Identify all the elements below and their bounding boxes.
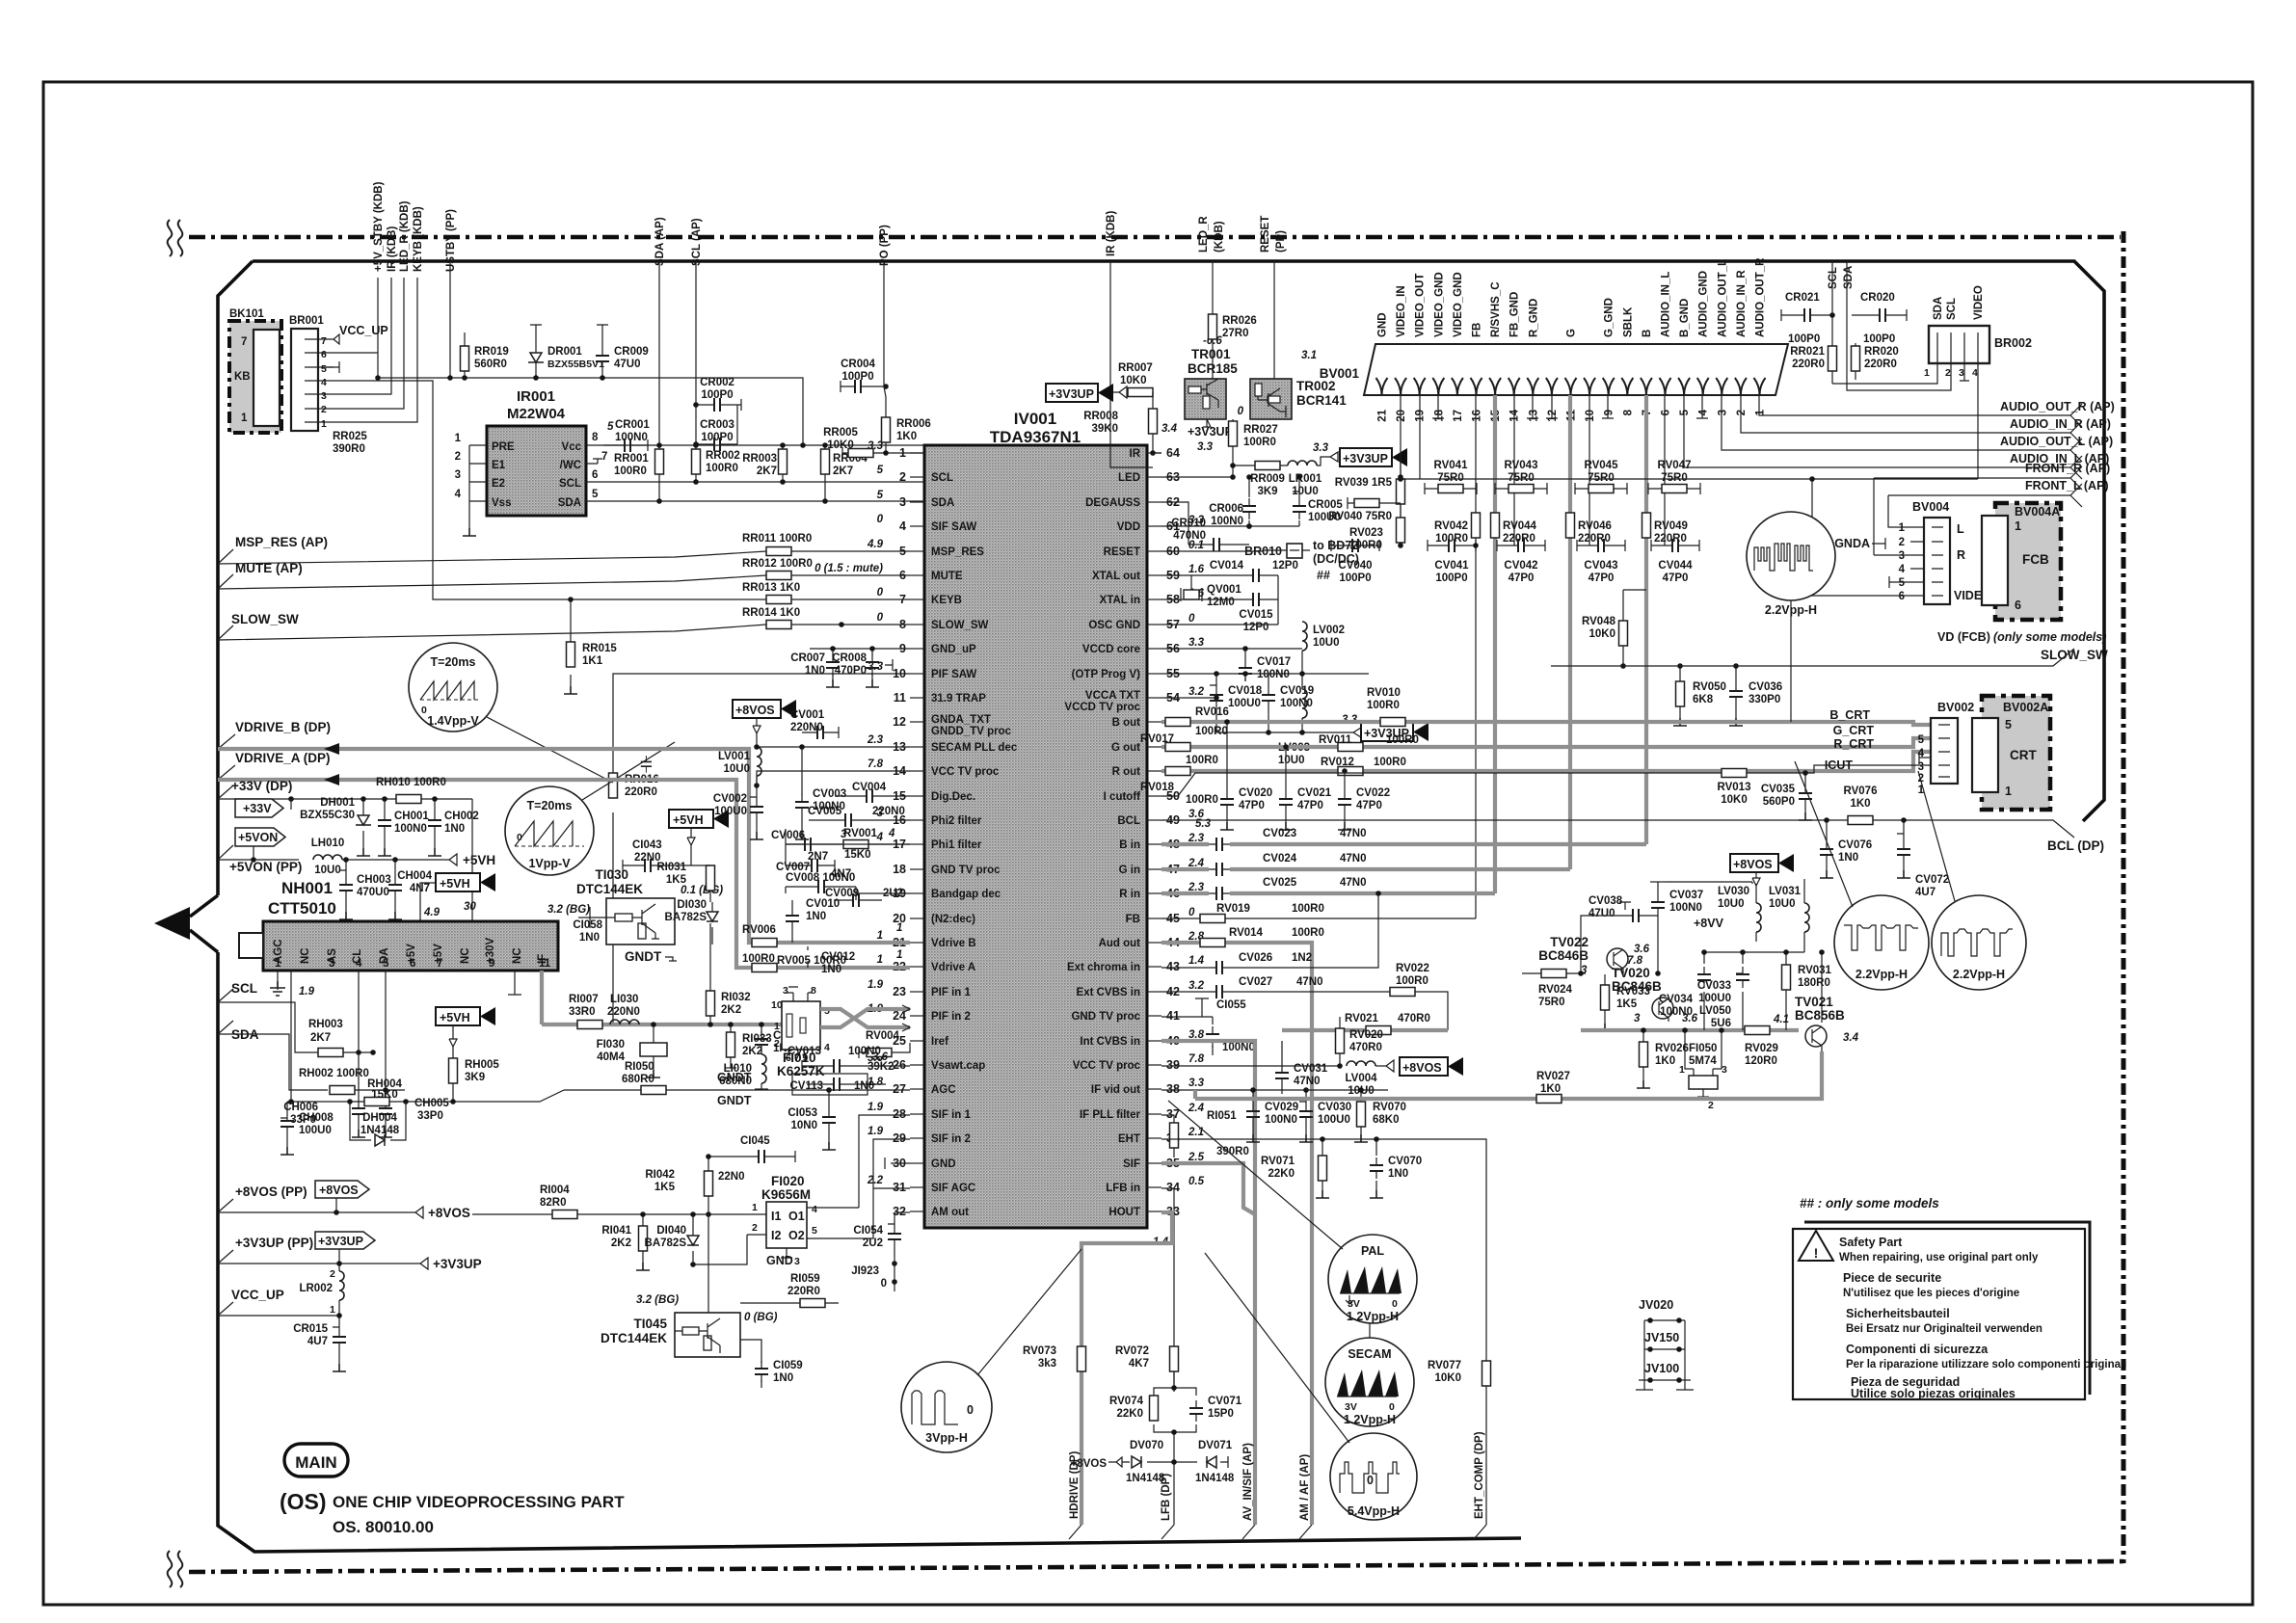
R in thick line with cap CV025 (1161, 891, 1495, 895)
capacitor CV033 100U0 / LV050 5U6 (1697, 952, 1749, 1030)
svg-text:330P0: 330P0 (1749, 694, 1780, 705)
svg-text:Utilice solo piezas originales: Utilice solo piezas originales (1851, 1387, 2016, 1400)
svg-text:CI055: CI055 (1216, 999, 1246, 1011)
svg-text:1N4148: 1N4148 (1195, 1473, 1235, 1484)
svg-text:DR001: DR001 (547, 346, 582, 358)
svg-text:47U0: 47U0 (1589, 908, 1615, 919)
svg-text:G: G (1566, 329, 1578, 337)
svg-text:M22W04: M22W04 (507, 406, 566, 422)
filter FI020 K9656M (747, 1174, 817, 1267)
svg-text:SDA: SDA (558, 497, 581, 509)
svg-text:VIDEO_GND: VIDEO_GND (1453, 272, 1464, 337)
svg-text:33R0: 33R0 (569, 1006, 596, 1018)
svg-text:3K9: 3K9 (465, 1072, 485, 1083)
svg-text:DV070: DV070 (1130, 1440, 1163, 1451)
svg-text:390R0: 390R0 (333, 443, 365, 455)
svg-text:33P0: 33P0 (417, 1110, 443, 1122)
svg-text:B: B (1642, 330, 1653, 337)
svg-text:RI042: RI042 (645, 1169, 675, 1181)
svg-text:RV047: RV047 (1658, 460, 1692, 471)
svg-text:100P0: 100P0 (841, 371, 873, 383)
svg-text:KEYB (KDB): KEYB (KDB) (413, 206, 424, 272)
net FRONT_R (AP) (1874, 462, 2110, 555)
svg-text:CR004: CR004 (841, 359, 875, 370)
wire pin64 IR to column (1110, 453, 1161, 467)
svg-text:100R0: 100R0 (1195, 726, 1228, 737)
capacitor CR003 100P0 (693, 405, 737, 451)
resistor RV046 220R0 (vertical) (1566, 513, 1575, 538)
wire BV004 pin6 VIDEO from column (1812, 479, 1910, 596)
svg-text:47U0: 47U0 (614, 359, 641, 370)
svg-text:+5VH: +5VH (673, 813, 704, 827)
svg-text:+8VOS: +8VOS (1733, 858, 1773, 871)
svg-text:VCCA TXT: VCCA TXT (1085, 690, 1140, 702)
sheet-break squiggle top-left (168, 220, 183, 256)
IC IR001 M22W04 eeprom (455, 388, 608, 516)
capacitor CV038 47U0 (electrolytic) (1589, 895, 1658, 922)
svg-text:FB: FB (1126, 914, 1140, 925)
svg-text:PIF in 2: PIF in 2 (931, 1011, 971, 1023)
capacitor CR008 470P0 (832, 646, 893, 687)
svg-text:1N0: 1N0 (773, 1372, 793, 1384)
svg-text:GND TV proc: GND TV proc (931, 865, 1001, 876)
svg-text:1: 1 (275, 958, 281, 970)
svg-text:3Vpp-H: 3Vpp-H (925, 1431, 968, 1445)
svg-text:TDA9367N1: TDA9367N1 (990, 428, 1081, 446)
BV001 pin 6 fork (1660, 378, 1671, 395)
svg-text:2K7: 2K7 (833, 466, 853, 477)
connector BV001 (trapezoid 21-pin) (1320, 344, 1788, 395)
svg-text:RR007: RR007 (1118, 362, 1153, 374)
wire pin54 VCCA (1161, 697, 1216, 699)
wire pin17 Phi1 (786, 829, 910, 865)
svg-text:CI043: CI043 (632, 839, 662, 851)
svg-text:+3V3UP: +3V3UP (433, 1257, 482, 1271)
svg-text:1.2Vpp-H: 1.2Vpp-H (1344, 1413, 1396, 1426)
capacitor CV022 47P0 (vertical) (1338, 768, 1390, 830)
svg-text:2.2: 2.2 (867, 1175, 884, 1186)
resistor RR011 100R0 (742, 533, 812, 556)
svg-text:CR021: CR021 (1785, 292, 1820, 304)
zener DH001 BZX55C30 (300, 796, 371, 856)
svg-text:82R0: 82R0 (540, 1197, 567, 1209)
resistor RV077 10K0 (vertical) (1428, 1360, 1490, 1386)
power flag +5VON (235, 828, 285, 846)
BV001 pin 12 fork (1546, 378, 1558, 395)
svg-text:9: 9 (489, 958, 494, 970)
svg-text:10K0: 10K0 (1721, 794, 1748, 806)
svg-text:23: 23 (893, 985, 906, 998)
svg-text:TV022: TV022 (1550, 935, 1589, 949)
svg-text:BC856B: BC856B (1795, 1008, 1845, 1023)
svg-text:XTAL in: XTAL in (1100, 595, 1140, 606)
svg-text:BV002A: BV002A (2003, 701, 2048, 714)
resistor RV006 100R0 on Vdrive B (742, 924, 777, 965)
NH001 IF pin 11 wire down (540, 971, 544, 1024)
svg-text:470N0: 470N0 (1173, 530, 1206, 542)
svg-text:1.4: 1.4 (1188, 955, 1205, 967)
svg-text:5: 5 (592, 489, 599, 500)
svg-text:2: 2 (455, 451, 461, 463)
BV001 pin 5 fork (1678, 378, 1690, 395)
svg-text:Vdrive B: Vdrive B (931, 938, 976, 949)
svg-text:RR026: RR026 (1222, 315, 1257, 327)
svg-text:I2: I2 (771, 1229, 781, 1242)
wire exit chamfers on left boundary (218, 549, 235, 1316)
svg-text:JV150: JV150 (1644, 1331, 1679, 1344)
BV001 pin 18 fork (1432, 378, 1444, 395)
svg-text:8: 8 (811, 985, 816, 997)
svg-text:CR008: CR008 (832, 652, 867, 664)
svg-text:4K7: 4K7 (1129, 1358, 1149, 1370)
jumper JV020 (1639, 1298, 1685, 1380)
svg-text:MUTE: MUTE (931, 571, 963, 582)
svg-text:3k3: 3k3 (1038, 1358, 1056, 1370)
svg-text:CR007: CR007 (790, 652, 825, 664)
column FB (pin16) (1475, 395, 1477, 918)
svg-text:RR019: RR019 (474, 346, 509, 358)
wire BV004 pin3 from FRONT loop (1874, 554, 1910, 556)
svg-text:220R0: 220R0 (788, 1286, 820, 1297)
svg-text:7.8: 7.8 (868, 758, 884, 770)
svg-text:Int CVBS in: Int CVBS in (1080, 1036, 1140, 1048)
svg-text:RR020: RR020 (1864, 346, 1899, 358)
svg-text:TV020: TV020 (1612, 966, 1650, 980)
svg-text:VCC_UP: VCC_UP (339, 324, 388, 337)
svg-text:2.2Vpp-H: 2.2Vpp-H (1855, 968, 1908, 981)
svg-text:HOUT: HOUT (1108, 1207, 1140, 1218)
wire pin26 Vsawt (909, 1065, 911, 1067)
resistor RV029 120R0 on drive rail (1745, 1014, 1789, 1067)
svg-text:29: 29 (893, 1131, 906, 1145)
svg-text:Safety Part: Safety Part (1839, 1236, 1903, 1249)
svg-text:+8VOS: +8VOS (428, 1206, 470, 1220)
svg-text:RI031: RI031 (656, 862, 686, 873)
inductor LI010 680N0 (vertical) (717, 1054, 768, 1107)
svg-text:22N0: 22N0 (718, 1171, 745, 1183)
svg-text:12: 12 (1547, 410, 1559, 422)
svg-text:12: 12 (893, 715, 906, 729)
resistor RR019 560R0 (vertical) (461, 333, 509, 381)
svg-text:KB: KB (234, 371, 251, 383)
wire KEYB from BR001 pin1 column (433, 424, 910, 599)
BV001 pin 1 fork (1754, 378, 1766, 395)
svg-text:I cutoff: I cutoff (1104, 791, 1140, 803)
svg-text:RI004: RI004 (540, 1184, 570, 1196)
svg-text:FI020: FI020 (771, 1174, 805, 1188)
svg-text:1N0: 1N0 (806, 911, 826, 922)
resistor RV044 220R0 (vertical) (1491, 513, 1500, 538)
svg-text:RV045: RV045 (1585, 460, 1619, 471)
svg-text:100N0: 100N0 (1257, 669, 1290, 680)
svg-text:0: 0 (877, 514, 884, 525)
svg-text:BR001: BR001 (289, 315, 324, 327)
svg-text:2: 2 (321, 404, 327, 415)
svg-text:ONE CHIP VIDEOPROCESSING PART: ONE CHIP VIDEOPROCESSING PART (333, 1493, 625, 1511)
svg-text:G_CRT: G_CRT (1833, 724, 1875, 737)
wire +5V_STBY column joins rail (377, 353, 379, 378)
+5VH net arrow right (443, 853, 495, 867)
svg-text:DV071: DV071 (1198, 1440, 1233, 1451)
svg-text:1: 1 (455, 433, 462, 444)
svg-text:AUDIO_IN_R: AUDIO_IN_R (1736, 270, 1748, 337)
svg-text:1Vpp-V: 1Vpp-V (528, 857, 571, 870)
svg-text:SLOW_SW: SLOW_SW (231, 612, 299, 626)
svg-text:5: 5 (607, 421, 614, 433)
svg-text:12P0: 12P0 (1272, 560, 1298, 572)
svg-text:RR021: RR021 (1790, 346, 1825, 358)
svg-text:CV019: CV019 (1280, 685, 1314, 697)
svg-text:CTT5010: CTT5010 (268, 899, 336, 918)
svg-text:VIDEO_IN: VIDEO_IN (1396, 285, 1407, 337)
video wire from BR002 pin4 down-left (1401, 478, 1978, 480)
svg-text:2: 2 (774, 1038, 780, 1050)
svg-text:6: 6 (410, 958, 415, 970)
svg-text:DI040: DI040 (656, 1225, 686, 1237)
svg-text:470R0: 470R0 (1398, 1013, 1430, 1024)
parallel RV074 22K0 + CV071 15P0 (1109, 1385, 1242, 1462)
G out thick line pin52 to BV002 (1161, 738, 1931, 747)
capacitor CV042 47P0 (1510, 539, 1532, 552)
svg-text:2K7: 2K7 (310, 1032, 331, 1044)
svg-text:6: 6 (2015, 599, 2021, 612)
svg-text:+8VOS (PP): +8VOS (PP) (235, 1184, 307, 1199)
+5V_STBY rail horizontal (378, 378, 803, 445)
SAW filter FI010 K6257K (771, 985, 830, 1078)
capacitor CV072 4U7 (electrolytic vertical) (1897, 817, 1949, 898)
svg-text:AUDIO_OUT_L: AUDIO_OUT_L (1717, 259, 1728, 337)
svg-text:RV019: RV019 (1216, 903, 1250, 915)
svg-text:100U0: 100U0 (1228, 698, 1261, 709)
capacitor CI045 22N0 (708, 1135, 795, 1183)
BV001 pin 7 fork (1641, 378, 1652, 395)
dash-dot sheet frame bottom (189, 1561, 2125, 1572)
wire SIF in 2 from FI020 (805, 1139, 910, 1238)
svg-text:CV012: CV012 (821, 951, 855, 963)
svg-text:3.2 (BG): 3.2 (BG) (547, 904, 590, 916)
resistor RV018 100R0 on R out (1140, 767, 1218, 807)
svg-text:BC846B: BC846B (1612, 979, 1662, 994)
svg-text:1: 1 (321, 418, 327, 430)
svg-text:4: 4 (888, 828, 895, 839)
svg-text:SECAM: SECAM (1348, 1347, 1391, 1361)
svg-text:CR009: CR009 (614, 346, 649, 358)
svg-text:7.8: 7.8 (1627, 955, 1643, 967)
power flag +5VH (left arrow) (436, 873, 495, 891)
svg-text:Vss: Vss (492, 497, 511, 509)
svg-text:75R0: 75R0 (1437, 472, 1464, 484)
svg-text:CV002: CV002 (713, 793, 747, 805)
svg-text:R_CRT: R_CRT (1833, 737, 1874, 751)
svg-text:VDRIVE_A (DP): VDRIVE_A (DP) (235, 751, 331, 765)
svg-text:RR012 100R0: RR012 100R0 (742, 558, 813, 570)
capacitor CV007 4N7 (776, 859, 851, 880)
capacitor CV034 100N0 (vertical) (1659, 952, 1711, 1030)
capacitor CV020 47P0 (vertical) (1220, 719, 1272, 830)
power flag +8VOS upper right (1730, 854, 1794, 886)
svg-text:100N0: 100N0 (1211, 516, 1243, 527)
svg-text:5: 5 (321, 363, 327, 375)
svg-text:CV038: CV038 (1589, 895, 1623, 907)
svg-text:470P0: 470P0 (835, 665, 867, 677)
svg-text:47P0: 47P0 (1663, 572, 1689, 584)
svg-text:1K0: 1K0 (1540, 1083, 1561, 1095)
svg-text:3: 3 (1634, 1013, 1641, 1024)
svg-text:EHT: EHT (1118, 1133, 1140, 1145)
svg-text:0: 0 (517, 832, 522, 843)
power flag +3V3UP lower (1342, 714, 1428, 741)
svg-text:CV008 100N0: CV008 100N0 (786, 872, 855, 884)
svg-text:RV044: RV044 (1503, 520, 1537, 532)
resistor RV073 3k3 (vertical) on HDRIVE (1023, 1345, 1085, 1371)
svg-text:Bandgap dec: Bandgap dec (931, 889, 1001, 900)
svg-text:5: 5 (1679, 409, 1691, 415)
svg-text:4.1: 4.1 (1773, 1014, 1789, 1025)
svg-text:1K1: 1K1 (582, 655, 603, 667)
svg-text:100P0: 100P0 (1863, 333, 1895, 345)
svg-text:18: 18 (1433, 409, 1445, 421)
svg-text:RV043: RV043 (1505, 460, 1538, 471)
svg-text:RV020: RV020 (1349, 1029, 1383, 1041)
svg-text:CV037: CV037 (1669, 890, 1703, 901)
capacitor CH008 100U0 (electrolytic) (280, 1102, 334, 1155)
dash-dot sheet frame top (189, 235, 2121, 240)
capacitor CV015 12P0 (1161, 575, 1278, 633)
capacitor CR021 100P0 (1781, 292, 1832, 345)
wire pin30 GND stub (885, 1157, 910, 1169)
svg-text:MSP_RES (AP): MSP_RES (AP) (235, 535, 328, 549)
inductor LR002 (vertical) (299, 1264, 344, 1316)
svg-text:CV043: CV043 (1584, 560, 1617, 572)
wire NH001 AGC pin1 down long (291, 971, 564, 1102)
resistor RI004 82R0 (472, 1184, 747, 1219)
resistor RI033 2K2 (vertical) (717, 1022, 772, 1084)
wire pin57 OSC GND (1161, 624, 1278, 625)
svg-text:47P0: 47P0 (1589, 572, 1615, 584)
svg-text:IR (KDB): IR (KDB) (387, 226, 398, 272)
svg-text:2: 2 (330, 1268, 335, 1280)
svg-text:SCL: SCL (1828, 267, 1839, 289)
thick IF wire from NH001 to FI010 (542, 1023, 820, 1026)
svg-text:IF vid out: IF vid out (1091, 1084, 1140, 1096)
resistor RR021 220R0 (vertical) (1790, 315, 1836, 384)
svg-text:1: 1 (1924, 367, 1930, 379)
svg-text:NC: NC (300, 947, 311, 964)
svg-text:41: 41 (1166, 1009, 1180, 1023)
+3V3UP arrow right (414, 1257, 482, 1271)
svg-text:75R0: 75R0 (1508, 472, 1535, 484)
svg-text:31: 31 (893, 1181, 906, 1194)
wire NH001 DA pin5 down to SDA (385, 971, 387, 1090)
svg-text:4U7: 4U7 (1915, 887, 1936, 898)
svg-text:+33V: +33V (243, 802, 272, 815)
svg-text:100N0: 100N0 (1222, 1042, 1255, 1053)
svg-text:4: 4 (356, 958, 362, 970)
svg-text:14: 14 (1509, 409, 1521, 421)
transistor TV020 BC846B (1612, 955, 1698, 1024)
svg-text:+8VOS: +8VOS (1402, 1061, 1442, 1075)
SIF thick wire pin35 down to AV_IN/SIF column (1161, 1163, 1255, 1525)
svg-text:CR005: CR005 (1308, 499, 1343, 511)
svg-text:100P0: 100P0 (701, 432, 733, 443)
capacitor CV012 1N0 (641, 756, 855, 975)
wires BR002 pins (1832, 356, 1978, 479)
svg-text:SECAM PLL dec: SECAM PLL dec (931, 742, 1018, 754)
svg-text:SIF in 1: SIF in 1 (931, 1109, 972, 1121)
svg-text:100R0: 100R0 (1292, 927, 1324, 939)
svg-text:100P0: 100P0 (1339, 572, 1371, 584)
svg-text:GND_uP: GND_uP (931, 644, 976, 655)
svg-text:NH001: NH001 (281, 879, 333, 897)
svg-text:BZX55C30: BZX55C30 (300, 810, 355, 821)
svg-text:+8VV: +8VV (1694, 917, 1724, 930)
svg-text:3.2: 3.2 (1188, 980, 1205, 992)
HOUT thick wire pin33 down to HDRIVE column (1081, 1212, 1172, 1525)
svg-text:SIF: SIF (1123, 1158, 1140, 1170)
wire pin55 OTP rail (1161, 673, 1369, 675)
svg-text:2U2: 2U2 (863, 1237, 883, 1249)
svg-text:1K0: 1K0 (1850, 798, 1870, 810)
svg-text:7: 7 (601, 451, 607, 463)
inductor LR001 10U0 (1288, 457, 1324, 497)
svg-text:0 (1.5 : mute): 0 (1.5 : mute) (814, 563, 883, 574)
svg-text:RI051: RI051 (1207, 1110, 1237, 1122)
svg-text:PIF in 1: PIF in 1 (931, 987, 972, 998)
column B (pin7, thick) (1644, 395, 1648, 844)
resistor RR026 27R0 (vertical) (1209, 313, 1257, 379)
svg-text:RV021: RV021 (1345, 1013, 1379, 1024)
oscillogram circle 2.2Vpp-H (comb) (1747, 512, 1835, 722)
svg-text:FCB: FCB (2022, 552, 2049, 567)
inductor LV004 10U0 (1345, 1061, 1380, 1097)
svg-text:LED: LED (1118, 472, 1140, 484)
svg-text:RV024: RV024 (1538, 984, 1573, 996)
wire NH001 CL pin4 down to SCL (358, 971, 360, 1052)
svg-text:12M0: 12M0 (1207, 597, 1235, 608)
svg-text:(PP): (PP) (1275, 230, 1287, 253)
resistor RR025 390R0 (333, 431, 367, 455)
crystal QV001 12M0 (1181, 584, 1241, 608)
svg-text:##: ## (1317, 569, 1330, 582)
svg-text:CV040: CV040 (1338, 560, 1372, 572)
svg-text:RV070: RV070 (1373, 1102, 1406, 1113)
svg-text:1N2: 1N2 (1292, 952, 1312, 964)
svg-text:GND: GND (1377, 312, 1389, 337)
svg-text:7: 7 (321, 335, 327, 347)
svg-text:0: 0 (1392, 1298, 1398, 1310)
svg-text:1K0: 1K0 (896, 431, 917, 442)
capacitor CV013 100N0 + CV113 1N0 pair (788, 1046, 910, 1095)
svg-text:100U0: 100U0 (299, 1125, 332, 1136)
svg-text:+8VOS: +8VOS (735, 704, 775, 717)
svg-text:6: 6 (321, 349, 327, 360)
resistor RV011 100R0 on G out (1319, 734, 1419, 752)
connector BV002 (1918, 701, 1975, 796)
svg-text:RV001: RV001 (843, 828, 878, 839)
svg-text:RV074: RV074 (1109, 1396, 1144, 1407)
wire SIF in 1 from FI020 (805, 1115, 910, 1208)
BV001 pin 8 fork (1621, 378, 1633, 395)
capacitor CR020 100P0 (1852, 292, 1907, 345)
svg-text:FI050: FI050 (1689, 1043, 1717, 1054)
svg-text:15K0: 15K0 (371, 1089, 398, 1101)
svg-text:LV030: LV030 (1718, 886, 1749, 897)
IF vid out pin38 wire (1161, 1089, 1388, 1091)
svg-text:47N0: 47N0 (1340, 853, 1367, 865)
svg-text:AUDIO_OUT_R (AP): AUDIO_OUT_R (AP) (2000, 400, 2115, 413)
LFB in wire pin34 down LFB column (1161, 1188, 1174, 1392)
svg-text:0: 0 (1238, 406, 1244, 417)
